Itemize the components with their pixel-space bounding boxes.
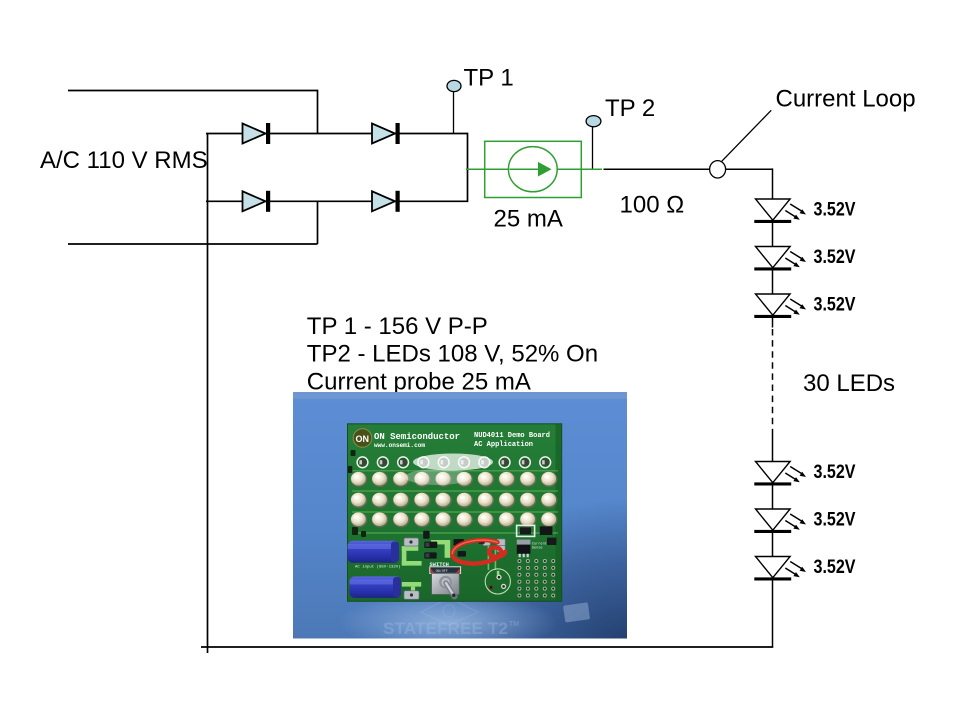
wire: bottom diode branch <box>206 200 468 202</box>
diode D3 <box>243 191 271 212</box>
LED D9 <box>754 509 806 533</box>
light green traces <box>352 470 558 472</box>
wire: AC bottom vertical into bridge node <box>317 201 319 244</box>
svg-text:TP 2: TP 2 <box>605 95 655 122</box>
wire: LED5-LED6 <box>772 530 774 556</box>
current source I1 arrow <box>510 168 539 170</box>
LED D8 <box>754 462 806 486</box>
watermark <box>421 598 478 625</box>
svg-text:3.52V: 3.52V <box>814 462 856 483</box>
current source I1 box <box>485 141 582 197</box>
wire: above LED4 <box>772 433 774 462</box>
right side components <box>517 525 535 536</box>
current source I1 circle <box>508 147 557 192</box>
LED rows 2-4 <box>350 472 367 487</box>
svg-text:100 Ω: 100 Ω <box>620 192 685 219</box>
svg-text:Current Loop: Current Loop <box>776 86 916 113</box>
svg-text:3.52V: 3.52V <box>814 247 856 268</box>
diode D1 <box>243 123 271 144</box>
wire: AC bottom lead <box>68 243 318 245</box>
LED D6 <box>754 247 806 271</box>
LED pad row 1 <box>357 457 368 468</box>
svg-text:3.52V: 3.52V <box>814 199 856 220</box>
current loop probe circle <box>710 161 726 178</box>
SMD components <box>423 531 485 559</box>
wire: top diode branch <box>206 133 468 135</box>
svg-text:TP 1 - 156 V P-P: TP 1 - 156 V P-P <box>307 313 488 340</box>
wire: loop to LED string corner <box>726 168 773 170</box>
svg-text:ON Semiconductor: ON Semiconductor <box>374 431 460 442</box>
svg-text:3.52V: 3.52V <box>814 557 856 578</box>
wire: AC top vertical into bridge node <box>317 90 319 134</box>
wire: TP2 node to current loop <box>604 168 710 170</box>
thick pcb traces <box>402 540 500 593</box>
photo background (blue bench) <box>293 392 627 639</box>
wire: dashed continuation (omitted LEDs) <box>772 329 774 433</box>
PCB board <box>348 424 562 602</box>
wire: LED2-LED3 <box>772 268 774 294</box>
wire: LED4-LED5 <box>772 483 774 509</box>
svg-text:STATEFREE T2: STATEFREE T2 <box>383 619 508 638</box>
svg-text:NUD4011 Demo Board: NUD4011 Demo Board <box>474 432 550 440</box>
ON Semiconductor logo <box>353 429 372 448</box>
test point TP2 stem <box>592 127 594 169</box>
flash highlight <box>413 454 493 471</box>
test point TP1 pad <box>447 80 461 91</box>
test point TP2 pad <box>586 116 601 127</box>
LED D5 <box>754 199 806 223</box>
LED D10 <box>754 557 806 581</box>
prototype hole grid <box>517 559 521 563</box>
svg-text:TP2 - LEDs 108 V, 52% On: TP2 - LEDs 108 V, 52% On <box>307 341 598 368</box>
blue capacitor C1 <box>348 541 400 563</box>
test point TP1 stem <box>453 92 455 134</box>
guard ring circle <box>485 569 510 594</box>
current loop callout line <box>722 110 771 161</box>
svg-text:AC input (85V-132V): AC input (85V-132V) <box>355 565 401 570</box>
blue capacitor C2 <box>350 576 402 598</box>
red jumper wire loop <box>452 540 505 563</box>
wire: LED6 to bottom bus <box>772 578 774 647</box>
wire: bridge output vertical <box>467 133 469 202</box>
svg-text:3.52V: 3.52V <box>814 294 856 315</box>
wire: bottom return bus <box>201 646 773 648</box>
svg-text:A/C 110 V RMS: A/C 110 V RMS <box>40 147 208 174</box>
wire: corner down to LED1 <box>772 168 774 199</box>
svg-text:Sense: Sense <box>532 547 543 551</box>
diode D2 <box>372 123 400 144</box>
svg-text:TP 1: TP 1 <box>464 65 514 92</box>
svg-text:25 mA: 25 mA <box>494 206 563 233</box>
diode D4 <box>372 191 400 212</box>
svg-text:Current probe 25 mA: Current probe 25 mA <box>307 368 531 395</box>
svg-text:AC Application: AC Application <box>474 441 533 449</box>
svg-text:30 LEDs: 30 LEDs <box>803 370 895 397</box>
LED D7 <box>754 294 806 318</box>
wire: AC top lead <box>68 90 318 92</box>
svg-text:3.52V: 3.52V <box>814 509 856 530</box>
svg-text:TM: TM <box>509 621 519 628</box>
wire: left return bus <box>207 134 209 654</box>
svg-text:ON: ON <box>356 434 370 444</box>
wire: LED1-LED2 <box>772 220 774 246</box>
transistor U1 <box>517 540 531 545</box>
svg-text:www.onsemi.com: www.onsemi.com <box>374 442 425 449</box>
wire: current source green lead <box>466 168 602 170</box>
wire: below LED3 <box>772 315 774 327</box>
